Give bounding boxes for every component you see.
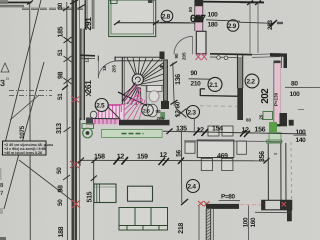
room 2.1 south wall outline [200,89,240,97]
inner vertical x213 [212,209,214,240]
svg-text:156: 156 [255,126,266,133]
dim line y132 [163,131,306,134]
svg-text:90: 90 [174,53,179,59]
svg-text:185: 185 [58,26,65,37]
bottom left edge marks [0,237,6,240]
svg-text:159: 159 [137,154,148,161]
svg-text:98: 98 [58,185,65,193]
dimension line top third [0,6,24,8]
right wall pier low [280,113,288,126]
svg-text:210: 210 [191,81,202,88]
wall 277-287 top with corner [270,53,287,68]
svg-text:136: 136 [175,74,182,85]
kitchen counter band [102,130,163,138]
chair right [237,141,247,154]
svg-text:154: 154 [212,126,223,133]
kitchen west wall lower [79,118,81,166]
green cabinet top [82,124,94,129]
right wall corner piece [289,120,294,126]
coffee table [128,186,153,201]
svg-text:51: 51 [57,93,64,100]
left wall column [72,0,78,240]
note box [3,141,47,155]
svg-text:51: 51 [57,49,64,56]
wall tick X y40 [64,37,72,43]
svg-text:98: 98 [58,71,65,79]
balcony green rect [109,0,156,37]
vertical x199 [198,206,200,240]
svg-text:2.4: 2.4 [188,184,197,191]
svg-text:2.9: 2.9 [228,23,237,30]
wall red X y204 [72,200,80,208]
door swing arc room 2.5 [98,61,118,78]
wall x81 lower [81,29,85,121]
pink stair bottom band [93,119,119,124]
thick wall x237-243 [237,88,243,120]
window mullion x258 [257,3,259,54]
dim vertical x94 [93,161,95,240]
svg-text:2.5: 2.5 [96,103,105,110]
hall north wall segment [210,53,240,56]
svg-text:202: 202 [260,88,271,104]
pink X marks under pier [196,54,208,61]
dimension line top thick [0,2,32,4]
chair bottom1 [201,158,212,170]
hatched wall down [206,209,211,240]
svg-text:100: 100 [208,12,219,19]
svg-text:261: 261 [83,80,93,94]
circle 2.9 [227,20,239,32]
svg-text:3: 3 [0,78,5,88]
dashes door header y106 [200,105,239,108]
terrace top wall left segment [206,204,239,209]
green sill bottom right [267,140,282,143]
svg-text:90: 90 [156,109,162,114]
green radiator room 2.2 [263,112,273,120]
svg-text:50: 50 [56,167,63,174]
wire diagonal section line D2 [4,62,44,209]
bold ticks near 12e [240,130,250,137]
tick 181 [159,158,185,166]
dash-dot line y95.5 [9,95,52,97]
hall west wall corner [160,66,168,68]
svg-text:80: 80 [291,81,298,88]
stair handrail diagonal 2 [123,83,136,102]
svg-text:12: 12 [160,152,168,159]
stair left wall [121,58,123,105]
pink line from circle 2.5 [109,104,122,106]
svg-text:30: 30 [57,2,64,9]
hall dim vertical x175.5 [173,63,174,107]
chair top2 [222,126,233,136]
red X ties terrace left [198,201,210,206]
svg-text:50: 50 [57,199,64,206]
room 2.5 dark fixture [86,118,93,125]
svg-text:291: 291 [83,17,93,31]
dining table [197,140,234,158]
svg-text:218: 218 [178,223,185,234]
window lines x92 [91,0,93,29]
dim line y135 [294,134,307,136]
tick 250 [247,1,253,6]
chair bottom2 [222,158,233,170]
svg-text:100: 100 [290,91,301,98]
svg-text:515: 515 [87,191,94,202]
wc toilet bowl [149,91,159,102]
hall wall pier [161,101,169,109]
circle 2.4 [187,180,200,193]
pink dashed line y204.5 [240,204,262,206]
room west wall upper [84,0,86,29]
balcony notch [111,0,118,4]
dim line under circle 2.8 [160,21,195,24]
dimension line top fourth [22,7,84,9]
door swing arc hall [174,36,193,54]
wire vertical grid line x30 [29,2,32,240]
svg-text:188: 188 [58,226,65,237]
wall red X y164 [70,161,79,168]
wire diagonal D4 [19,160,74,202]
svg-text:90: 90 [191,70,198,77]
top wall line right of 203 [203,1,264,4]
tick bottom 136 [171,100,178,105]
svg-text:205: 205 [111,64,116,72]
tick on chain x66 [63,7,69,12]
tick at 156,22.8 [153,21,159,26]
tick 266 [264,158,270,164]
dim line right of 2.9 [239,22,272,23]
wc cistern rect [147,86,162,92]
window mullion x250 [249,3,251,54]
pink winder lines lower [124,85,146,124]
stair spiral hub [132,74,143,85]
wire diagonal section line D1 [2,0,41,155]
wall tick X y81 [64,78,72,84]
stair handrail diagonal [118,92,147,106]
svg-text:18: 18 [102,65,107,71]
wall corner piece x80-95 y54 [80,54,95,57]
tick 258 [255,1,261,6]
vertical x248.5 [248,206,250,240]
bright green square [269,122,277,132]
circle 2.1 [208,77,222,91]
right wall below [287,210,292,222]
tick 94.5 [92,158,98,163]
kitchen top wall dark [119,120,170,126]
svg-text:223: 223 [267,20,274,30]
level triangle symbol [1,63,9,72]
light green rect below [269,133,281,143]
wall red X y100 [71,96,80,103]
svg-text:80: 80 [246,118,252,123]
pink heated wall band [274,61,281,127]
left chain tick y87 [62,85,68,90]
svg-text:1075: 1075 [19,125,26,139]
top dim line y2.5 right [240,1,264,3]
svg-text:205: 205 [182,52,187,60]
circle 2.3 [187,106,200,119]
terrace bottom wall [262,200,292,210]
arrow tick on x181.5 at y202 [181,199,188,205]
svg-text:2.8: 2.8 [162,14,171,21]
top center wall x195-203 with pink segments [195,0,203,31]
small circle on wall 1 [217,56,221,60]
short dim line y79 [189,78,212,80]
window dim line y87 [285,86,320,88]
tick top 136 [170,62,177,67]
wall tick X y60 [64,56,72,62]
svg-text:313: 313 [56,123,63,134]
dim line y22 across balcony [117,22,191,24]
circle 2.5 [95,99,108,112]
top left tiny marks [0,0,8,4]
bidet oval [147,104,158,117]
stair winder treads [123,58,164,105]
svg-text:180: 180 [208,22,219,29]
circle 2.2 [245,74,259,88]
dim vertical x181.5 [180,131,183,203]
door swing X hall [176,109,187,118]
bold ticks near 12d [194,129,209,137]
stair up arrow diagonal [108,107,121,120]
wall pier outline between doors [196,31,206,54]
wall 240-252 top [240,53,252,55]
svg-text:469: 469 [217,153,228,160]
terrace right verticals x281/286 [280,143,282,200]
svg-text:P=130: P=130 [274,92,279,106]
tick 116/124 bold [114,157,129,165]
tick 169 [167,129,173,135]
circle 2.6 small [142,104,154,116]
svg-text:2.6: 2.6 [143,108,150,114]
room 2.5 top wall [115,57,162,61]
tick at 117,22.7 [114,21,120,26]
dash-dot line y90.5 [9,90,52,92]
dimension line top second [0,4,24,6]
long dim line y160 [80,159,267,162]
small dash right [298,108,304,110]
dim line under 100 [206,20,240,21]
green hob circle [83,128,93,138]
room 2.5 fixture top marks [86,92,91,96]
svg-text:2.2: 2.2 [247,79,256,86]
pink stair flight [99,105,125,124]
living beam line y141 [184,140,283,143]
svg-text:140: 140 [296,137,307,144]
dim line under P=80 [219,199,241,201]
tick top of x30 [27,1,33,5]
hall west wall vertical [164,60,168,101]
dim tick at (82,6.5) [78,5,85,9]
svg-text:160: 160 [250,217,257,227]
svg-text:12: 12 [85,57,90,63]
svg-text:20: 20 [259,114,264,120]
room 2.5 white circle fixture [90,111,97,118]
svg-text:o: o [6,76,9,82]
counter dashed green line [122,133,144,135]
armchair [94,184,116,203]
circle 2.8 [161,10,173,22]
svg-text:2.3: 2.3 [188,110,197,117]
wc partition line [145,86,147,105]
svg-text:60: 60 [175,101,182,108]
left dim chain vertical x66 [66,2,69,240]
chair left [185,142,195,153]
sofa [119,208,168,231]
svg-text:2.1: 2.1 [209,82,218,89]
svg-text:80: 80 [188,6,193,12]
arrow end of line [269,21,276,26]
dimension line top fifth [22,9,84,11]
dotted vertical x291 [290,142,293,200]
svg-text:356: 356 [259,151,266,162]
svg-text:P=80: P=80 [221,194,235,201]
red marks on wall [282,202,287,207]
terrace right verticals x268 [267,143,269,200]
outer line y212.5 [255,211,292,213]
chair top1 [208,126,219,136]
wire diagonal short D3 [10,95,39,120]
small circle on wall 2 [224,56,228,60]
green plant hall [160,112,165,119]
svg-text:+40 m istoel tems 0.26: +40 m istoel tems 0.26 [4,151,42,155]
